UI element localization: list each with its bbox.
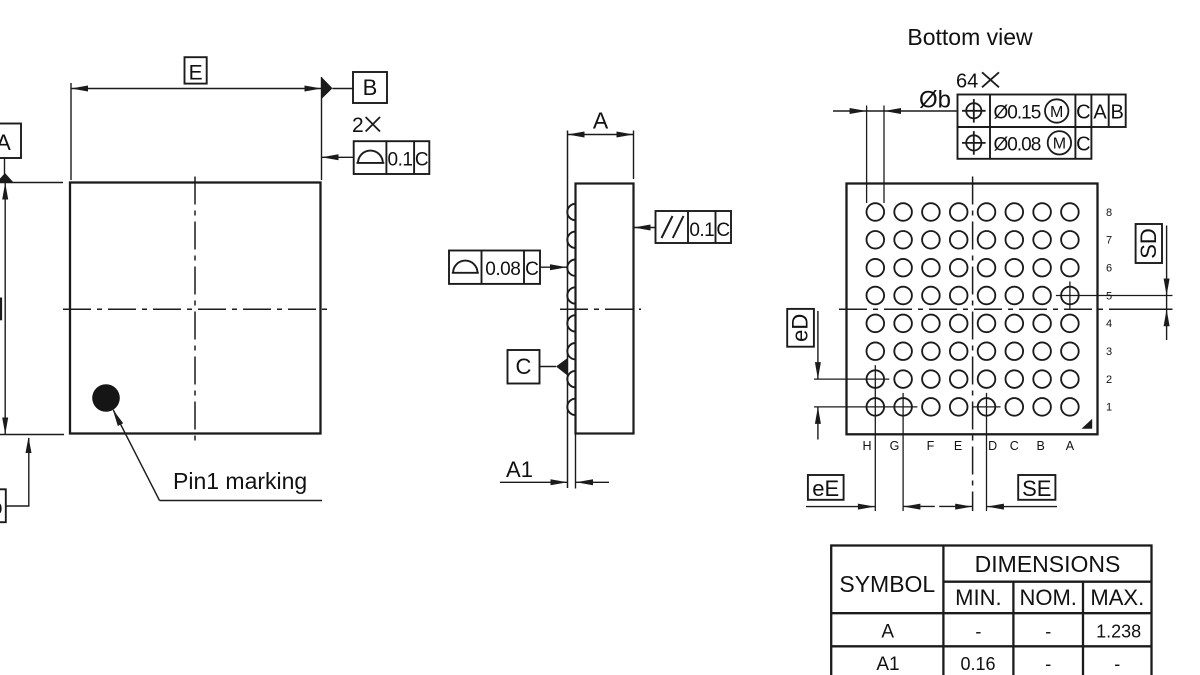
svg-text:MIN.: MIN.: [955, 585, 1001, 610]
svg-text:Pin1 marking: Pin1 marking: [173, 468, 307, 494]
svg-text:64: 64: [956, 71, 978, 93]
svg-text:2: 2: [352, 114, 364, 137]
svg-text:SYMBOL: SYMBOL: [839, 571, 935, 597]
svg-text:A: A: [593, 108, 609, 134]
svg-text:3: 3: [1106, 346, 1112, 358]
svg-text:A: A: [881, 622, 894, 643]
svg-text:8: 8: [1106, 207, 1112, 219]
svg-text:eE: eE: [812, 476, 839, 501]
svg-text:1.238: 1.238: [1096, 622, 1141, 642]
svg-text:B: B: [1111, 102, 1124, 124]
svg-text:Ø0.08: Ø0.08: [994, 135, 1041, 156]
svg-text:A1: A1: [876, 654, 899, 675]
svg-text:DIMENSIONS: DIMENSIONS: [975, 551, 1121, 577]
svg-text:F: F: [927, 439, 935, 453]
svg-text:D: D: [988, 439, 997, 453]
svg-text:E: E: [954, 439, 962, 453]
svg-text:A1: A1: [506, 457, 533, 482]
svg-text:A: A: [1093, 102, 1107, 124]
svg-text:C: C: [1076, 102, 1090, 124]
svg-text:E: E: [189, 62, 203, 85]
svg-text:C: C: [716, 220, 730, 241]
svg-text:0.08: 0.08: [485, 259, 520, 280]
svg-text:-: -: [1045, 654, 1051, 674]
svg-text:A: A: [0, 130, 11, 155]
svg-text:H: H: [862, 439, 871, 453]
svg-text:C: C: [1010, 439, 1019, 453]
svg-text:A: A: [1066, 439, 1075, 453]
svg-text:C: C: [525, 259, 539, 280]
svg-text:Øb: Øb: [919, 87, 951, 114]
svg-text:M: M: [1050, 104, 1063, 121]
svg-text:5: 5: [1106, 290, 1112, 302]
svg-text:B: B: [1037, 439, 1045, 453]
svg-text:Bottom view: Bottom view: [907, 24, 1033, 50]
svg-text:-: -: [1114, 654, 1120, 674]
svg-text:0.1: 0.1: [388, 150, 413, 171]
svg-text:Øb: Øb: [0, 497, 3, 519]
svg-text:-: -: [975, 622, 981, 642]
svg-text:M: M: [1053, 136, 1066, 153]
svg-text:7: 7: [1106, 235, 1112, 247]
svg-text:SE: SE: [1022, 476, 1051, 501]
svg-text:MAX.: MAX.: [1090, 585, 1144, 610]
svg-text:2: 2: [1106, 374, 1112, 386]
svg-text:1: 1: [1106, 402, 1112, 414]
svg-text:0.16: 0.16: [960, 654, 995, 674]
svg-text:eD: eD: [788, 314, 813, 342]
svg-text:NOM.: NOM.: [1019, 585, 1076, 610]
svg-text:Ø0.15: Ø0.15: [994, 103, 1041, 124]
svg-text:C: C: [415, 150, 429, 171]
svg-text:G: G: [890, 439, 900, 453]
svg-text:SD: SD: [1136, 228, 1161, 259]
svg-text:4: 4: [1106, 318, 1112, 330]
svg-text:C: C: [1076, 134, 1090, 156]
svg-text:C: C: [516, 354, 532, 379]
svg-text:0.1: 0.1: [689, 220, 714, 241]
svg-text:-: -: [1045, 622, 1051, 642]
svg-text:6: 6: [1106, 263, 1112, 275]
svg-text:B: B: [363, 75, 378, 100]
